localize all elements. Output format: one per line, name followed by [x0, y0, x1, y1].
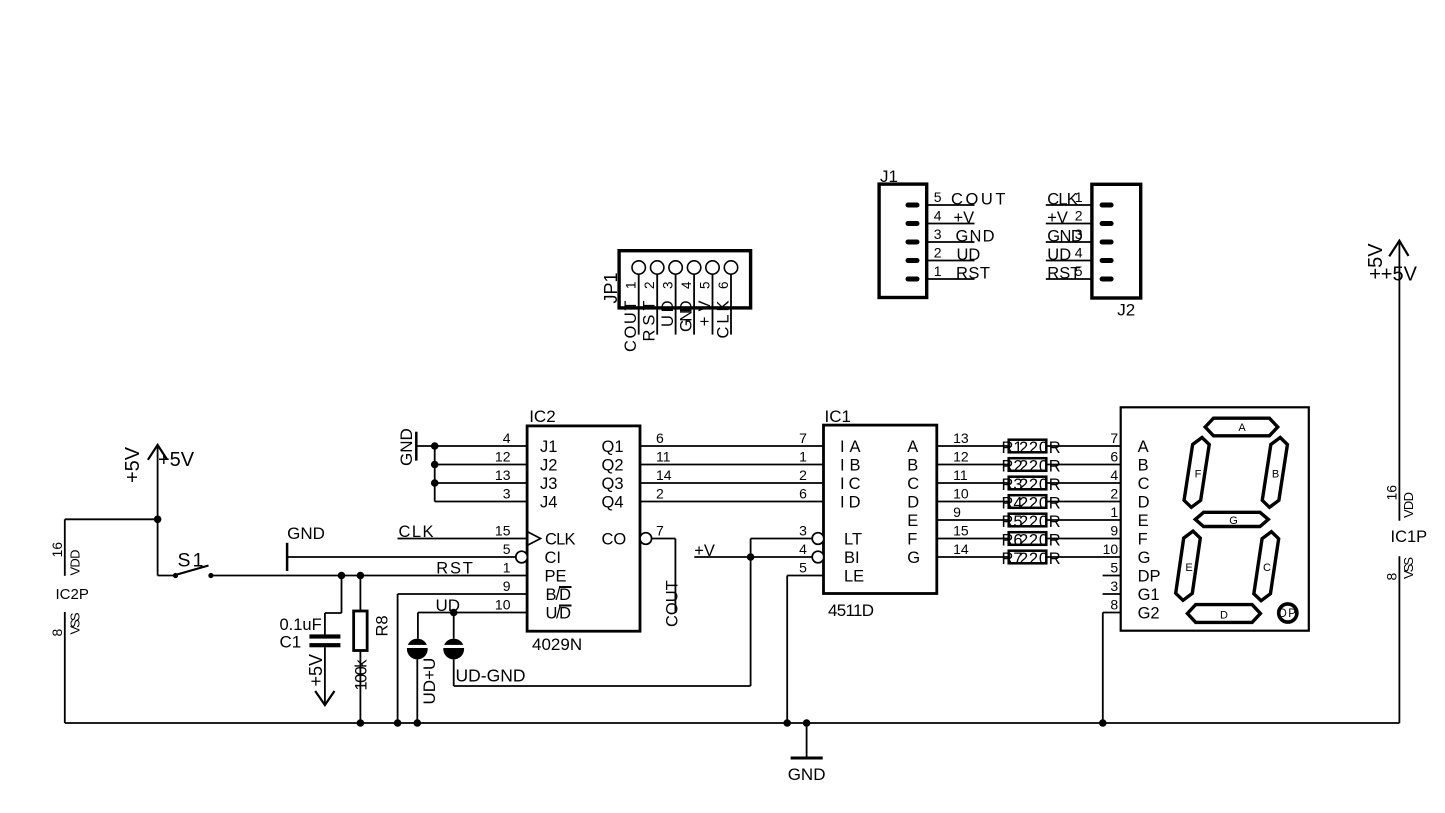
junction rail R8: [357, 719, 365, 727]
display 7-segment LED: [1103, 407, 1309, 630]
svg-text:C: C: [1138, 475, 1150, 493]
svg-text:IC2P: IC2P: [56, 586, 89, 603]
svg-text:6: 6: [799, 486, 807, 502]
svg-text:+5V: +5V: [306, 654, 326, 687]
svg-text:1: 1: [503, 560, 511, 576]
svg-text:J2: J2: [1117, 300, 1135, 319]
svg-text:D: D: [1220, 609, 1228, 621]
svg-text:B: B: [1272, 469, 1279, 481]
svg-text:IC2: IC2: [529, 407, 555, 426]
svg-text:IC: IC: [840, 475, 861, 493]
svg-text:G: G: [1229, 515, 1238, 527]
svg-text:UD+U: UD+U: [420, 658, 439, 705]
wire Q1 to IC1: [640, 445, 824, 447]
wire GND to J2 pin: [435, 464, 527, 466]
svg-text:220R: 220R: [1019, 476, 1061, 494]
wire +5V to IC2P: [65, 518, 158, 520]
junction rail UD+U: [414, 719, 422, 727]
wire GND to J1 pin: [416, 445, 527, 447]
svg-text:2: 2: [1075, 208, 1083, 224]
wire DP stub: [1103, 575, 1121, 577]
svg-text:9: 9: [1110, 523, 1118, 539]
wire RST net: [211, 575, 527, 577]
svg-text:UD-GND: UD-GND: [456, 666, 526, 686]
wire Q2 to IC1: [640, 464, 824, 466]
power +5V inverted below C1: [306, 647, 335, 705]
svg-text:G: G: [1138, 549, 1151, 567]
decimal point DP: [1279, 604, 1297, 622]
svg-text:UD: UD: [1047, 246, 1071, 264]
svg-text:COUT: COUT: [664, 580, 682, 627]
power +5V supply right: [1365, 241, 1418, 521]
power pins IC1P: [1383, 485, 1427, 723]
wire +V net: [694, 556, 812, 558]
svg-text:220R: 220R: [1019, 439, 1061, 457]
svg-text:13: 13: [495, 467, 511, 483]
segment D: [1187, 605, 1260, 623]
svg-text:UD: UD: [659, 300, 677, 327]
svg-text:CLK: CLK: [1047, 191, 1078, 209]
svg-text:E: E: [1138, 512, 1149, 530]
svg-text:5: 5: [934, 189, 942, 205]
svg-text:1: 1: [934, 263, 942, 279]
svg-text:Q4: Q4: [602, 494, 624, 512]
svg-text:J1: J1: [540, 438, 557, 456]
junction UD jumper: [450, 609, 458, 617]
svg-text:GND: GND: [956, 228, 995, 246]
svg-text:1: 1: [1110, 504, 1118, 520]
svg-text:F: F: [1138, 531, 1148, 549]
svg-text:1: 1: [624, 281, 639, 289]
IC2 4029N counter: [495, 407, 672, 654]
resistor R3 220R: [937, 476, 1121, 494]
svg-text:GND: GND: [287, 524, 325, 543]
junction GND J2: [431, 461, 439, 469]
svg-text:7: 7: [799, 430, 807, 446]
svg-text:5: 5: [1110, 560, 1118, 576]
svg-text:J2: J2: [540, 457, 557, 475]
svg-text:2: 2: [656, 486, 664, 502]
svg-text:RST: RST: [436, 560, 473, 578]
svg-text:LE: LE: [844, 568, 864, 586]
svg-text:8: 8: [1110, 597, 1118, 613]
svg-text:3: 3: [934, 226, 942, 242]
svg-text:G: G: [907, 549, 920, 567]
svg-text:5: 5: [799, 560, 807, 576]
svg-text:VSS: VSS: [1401, 557, 1416, 579]
svg-text:IC1: IC1: [825, 407, 851, 426]
IC1 4511D decoder: [799, 407, 969, 620]
wire GND vertical: [434, 446, 436, 502]
resistor R7 220R: [937, 550, 1121, 568]
svg-text:CLK: CLK: [545, 531, 576, 549]
resistor R5 220R: [937, 513, 1121, 531]
svg-text:D: D: [1138, 494, 1150, 512]
ground GND supply bottom: [788, 723, 826, 784]
svg-text:+V: +V: [696, 301, 714, 327]
resistor R2 220R: [937, 457, 1121, 475]
svg-text:2: 2: [1110, 486, 1118, 502]
svg-text:10: 10: [1103, 541, 1119, 557]
wire +5V down to S1: [157, 519, 159, 575]
junction rail G2: [1099, 719, 1107, 727]
svg-text:+V: +V: [954, 209, 975, 227]
svg-text:13: 13: [953, 430, 969, 446]
svg-text:2: 2: [934, 245, 942, 261]
svg-text:GND: GND: [678, 300, 696, 332]
svg-text:11: 11: [953, 467, 968, 483]
junction GND J3: [431, 479, 439, 487]
svg-text:8: 8: [49, 629, 65, 637]
svg-text:G2: G2: [1138, 605, 1160, 623]
svg-text:B/D: B/D: [546, 586, 572, 604]
svg-text:IB: IB: [840, 457, 861, 475]
svg-text:+V: +V: [1047, 209, 1068, 227]
svg-text:3: 3: [799, 523, 807, 539]
svg-text:C: C: [1263, 562, 1271, 574]
svg-text:C: C: [907, 475, 919, 493]
svg-text:+5V: +5V: [1381, 264, 1418, 286]
svg-text:C1: C1: [280, 633, 302, 652]
svg-text:220R: 220R: [1019, 550, 1061, 568]
segment A: [1205, 418, 1278, 436]
svg-text:2: 2: [642, 281, 657, 289]
svg-text:Q2: Q2: [602, 457, 624, 475]
junction GND J1: [431, 442, 439, 450]
svg-text:16: 16: [1383, 485, 1399, 501]
svg-text:10: 10: [495, 597, 511, 613]
svg-text:0.1uF: 0.1uF: [280, 616, 322, 634]
svg-text:IA: IA: [840, 438, 861, 456]
junction +5V node: [154, 516, 162, 524]
svg-text:10: 10: [953, 486, 969, 502]
svg-text:ID: ID: [840, 494, 861, 512]
svg-text:4: 4: [1110, 467, 1118, 483]
svg-text:3: 3: [503, 486, 511, 502]
svg-text:100k: 100k: [353, 659, 371, 691]
svg-text:E: E: [907, 512, 918, 530]
svg-text:7: 7: [1110, 430, 1118, 446]
junction +V: [747, 553, 755, 561]
svg-text:A: A: [1238, 422, 1246, 434]
svg-text:15: 15: [953, 523, 969, 539]
svg-text:+5V: +5V: [158, 449, 195, 471]
junction rail B/D: [394, 719, 402, 727]
ground GND supply pin at CI: [287, 524, 325, 571]
svg-text:1: 1: [799, 449, 807, 465]
svg-text:9: 9: [953, 504, 961, 520]
svg-text:4: 4: [503, 430, 511, 446]
svg-text:RST: RST: [1047, 265, 1080, 283]
svg-text:A: A: [1138, 438, 1149, 456]
svg-text:G1: G1: [1138, 586, 1160, 604]
wire ground rail: [65, 722, 1400, 724]
segment F: [1184, 438, 1209, 508]
svg-text:D: D: [907, 494, 919, 512]
svg-text:12: 12: [495, 449, 511, 465]
wire CLK net: [398, 538, 528, 540]
svg-text:11: 11: [656, 449, 671, 465]
svg-text:+5V: +5V: [122, 446, 144, 483]
resistor R4 220R: [937, 494, 1121, 512]
capacitor C1 0.1uF: [280, 576, 342, 652]
svg-text:9: 9: [503, 578, 511, 594]
svg-text:E: E: [1185, 562, 1192, 574]
junction rail GND symbol: [803, 719, 811, 727]
svg-text:GND: GND: [397, 428, 416, 466]
svg-text:5: 5: [503, 541, 511, 557]
svg-text:GND: GND: [1047, 228, 1083, 246]
svg-text:RST: RST: [641, 301, 659, 342]
svg-text:220R: 220R: [1019, 513, 1061, 531]
svg-text:VDD: VDD: [68, 550, 83, 576]
svg-text:CLK: CLK: [715, 301, 733, 339]
svg-text:VDD: VDD: [1401, 492, 1416, 518]
svg-text:16: 16: [49, 542, 65, 558]
svg-text:14: 14: [656, 467, 672, 483]
svg-text:IC1P: IC1P: [1391, 528, 1428, 546]
svg-text:6: 6: [1110, 449, 1118, 465]
ground GND supply pin at J1-J4: [397, 428, 416, 466]
svg-text:8: 8: [1383, 573, 1399, 581]
svg-text:4511D: 4511D: [828, 601, 874, 620]
svg-text:J4: J4: [540, 494, 557, 512]
svg-text:4029N: 4029N: [532, 635, 582, 654]
svg-text:BI: BI: [844, 549, 860, 567]
svg-text:2: 2: [799, 467, 807, 483]
svg-text:GND: GND: [788, 765, 826, 784]
svg-text:CLK: CLK: [399, 523, 434, 541]
connector JP1: [601, 251, 751, 352]
wire Q3 to IC1: [640, 482, 824, 484]
wire G1 stub: [1103, 593, 1121, 595]
svg-text:JP1: JP1: [601, 272, 621, 303]
svg-text:4: 4: [1075, 245, 1083, 261]
switch S1: [173, 550, 214, 579]
svg-text:3: 3: [660, 281, 675, 289]
wire GND to J3 pin: [435, 482, 527, 484]
svg-text:3: 3: [1110, 578, 1118, 594]
svg-text:CO: CO: [602, 531, 627, 549]
junction C1 tap: [338, 572, 346, 580]
junction R8 tap: [357, 572, 365, 580]
wire B/D net to ground rail: [398, 593, 527, 595]
svg-text:220R: 220R: [1019, 457, 1061, 475]
svg-text:PE: PE: [545, 568, 567, 586]
svg-text:6: 6: [716, 281, 731, 289]
segment E: [1176, 531, 1201, 600]
svg-text:4: 4: [679, 281, 694, 289]
svg-text:4: 4: [934, 208, 942, 224]
connector J2: [1046, 184, 1141, 319]
svg-text:J3: J3: [540, 475, 557, 493]
svg-text:A: A: [907, 438, 918, 456]
wire COUT net: [651, 538, 675, 540]
svg-text:B: B: [1138, 457, 1149, 475]
segment G: [1195, 512, 1268, 526]
svg-text:J1: J1: [880, 167, 898, 186]
svg-text:U/D: U/D: [546, 605, 572, 623]
connector J1: [879, 167, 1005, 298]
wire G2 to ground rail: [1103, 612, 1121, 614]
svg-text:5: 5: [697, 281, 712, 289]
svg-text:F: F: [1195, 469, 1202, 481]
segment B: [1262, 438, 1287, 508]
power +5V supply left: [122, 445, 195, 519]
svg-text:12: 12: [953, 449, 969, 465]
power pins IC2P: [49, 519, 89, 723]
wire GND to J4 pin: [435, 501, 527, 503]
svg-text:14: 14: [953, 541, 969, 557]
wire UD net: [418, 612, 527, 614]
wire Q4 to IC1: [640, 501, 824, 503]
svg-text:R8: R8: [374, 615, 392, 636]
wire jumper UD+U to rail: [416, 659, 418, 723]
wire jumper UD-GND to +V node: [453, 659, 455, 686]
svg-text:7: 7: [656, 523, 664, 539]
resistor R6 220R: [937, 531, 1121, 549]
svg-text:4: 4: [799, 541, 807, 557]
svg-text:UD: UD: [957, 246, 981, 264]
svg-text:220R: 220R: [1019, 494, 1061, 512]
segment C: [1254, 532, 1279, 601]
svg-text:LT: LT: [844, 531, 862, 549]
junction rail LE: [783, 719, 791, 727]
svg-text:COUT: COUT: [622, 301, 640, 353]
svg-text:CI: CI: [545, 549, 562, 567]
svg-text:F: F: [907, 531, 917, 549]
resistor R1 220R: [937, 439, 1121, 457]
wire GND to CI pin: [287, 556, 516, 558]
jumper UD-GND: [442, 613, 525, 686]
svg-text:Q3: Q3: [602, 475, 624, 493]
svg-text:DP: DP: [1138, 568, 1161, 586]
svg-text:220R: 220R: [1019, 531, 1061, 549]
svg-text:15: 15: [495, 523, 511, 539]
svg-text:6: 6: [656, 430, 664, 446]
svg-text:Q1: Q1: [602, 438, 624, 456]
svg-text:DP: DP: [1278, 608, 1296, 620]
resistor R8 100k: [353, 576, 392, 724]
wire LE to ground rail: [787, 575, 823, 577]
jumper UD+U: [406, 639, 439, 705]
svg-text:RST: RST: [956, 265, 990, 283]
svg-text:COUT: COUT: [951, 191, 1006, 209]
svg-text:B: B: [907, 457, 918, 475]
svg-text:VSS: VSS: [68, 612, 83, 634]
